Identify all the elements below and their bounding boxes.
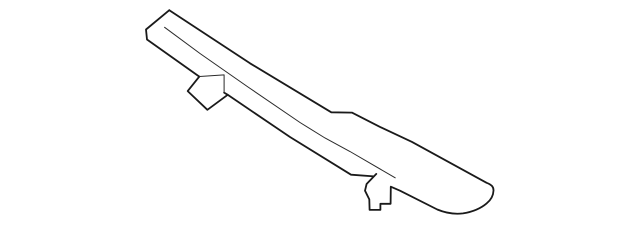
locator arrow outline bbox=[188, 77, 228, 110]
locator arrow inner edges bbox=[200, 75, 225, 93]
molding outline (left end and upper bottom edge) bbox=[146, 10, 199, 76]
molding outline (main body, clip tab, right end, top edge) bbox=[169, 10, 493, 214]
crease line bbox=[165, 27, 396, 178]
